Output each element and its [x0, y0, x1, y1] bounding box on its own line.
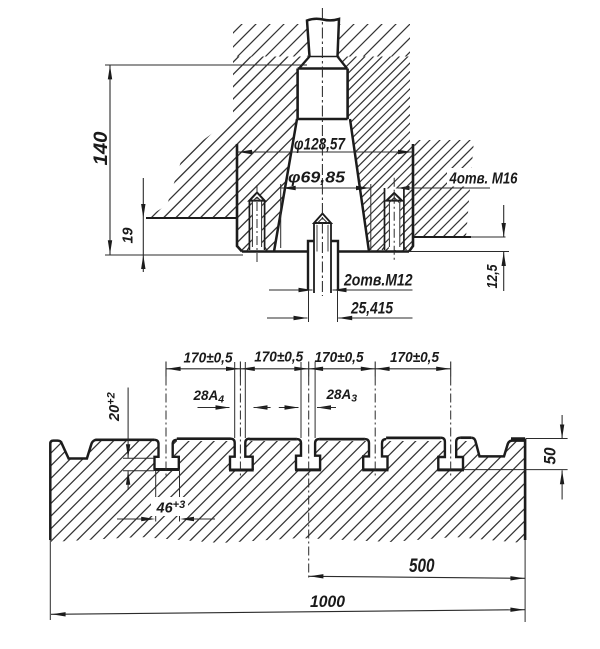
svg-text:1000: 1000 — [310, 592, 345, 611]
svg-text:2отв.М12: 2отв.М12 — [343, 272, 412, 290]
svg-text:19: 19 — [121, 228, 137, 244]
svg-text:170±0,5: 170±0,5 — [254, 350, 304, 366]
svg-text:φ69,85: φ69,85 — [288, 170, 346, 187]
svg-text:50: 50 — [541, 447, 560, 464]
svg-text:170±0,5: 170±0,5 — [315, 350, 365, 366]
svg-text:170±0,5: 170±0,5 — [390, 350, 440, 366]
svg-text:12,5: 12,5 — [484, 264, 501, 289]
svg-text:4отв. М16: 4отв. М16 — [449, 171, 518, 188]
svg-text:φ128,57: φ128,57 — [294, 135, 346, 154]
svg-text:500: 500 — [409, 556, 435, 577]
svg-text:170±0,5: 170±0,5 — [184, 351, 234, 367]
svg-text:140: 140 — [91, 131, 112, 165]
svg-text:25,415: 25,415 — [350, 299, 393, 318]
